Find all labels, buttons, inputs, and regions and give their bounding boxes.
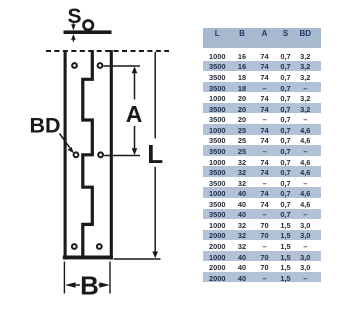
svg-text:B: B (80, 271, 99, 301)
svg-text:A: A (126, 101, 143, 127)
svg-text:BD: BD (30, 114, 61, 138)
svg-text:S: S (67, 5, 81, 28)
svg-text:L: L (147, 139, 163, 169)
